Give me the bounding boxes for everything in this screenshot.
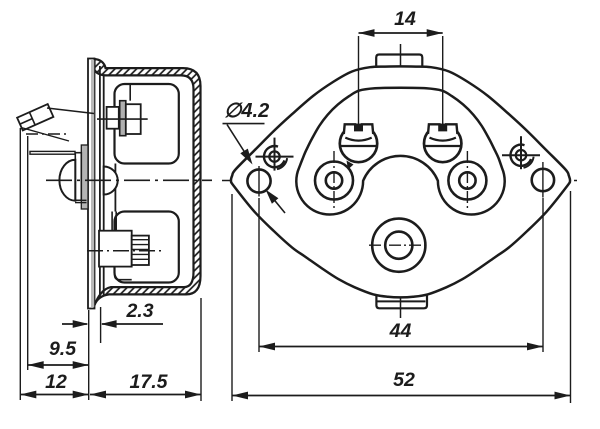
svg-text:44: 44 (389, 320, 412, 342)
svg-text:2.3: 2.3 (125, 300, 153, 322)
svg-text:14: 14 (394, 8, 416, 30)
svg-text:9.5: 9.5 (49, 338, 77, 360)
svg-text:52: 52 (393, 369, 415, 391)
svg-text:∅4.2: ∅4.2 (224, 100, 269, 122)
svg-text:12: 12 (45, 371, 67, 393)
svg-text:17.5: 17.5 (130, 371, 169, 393)
